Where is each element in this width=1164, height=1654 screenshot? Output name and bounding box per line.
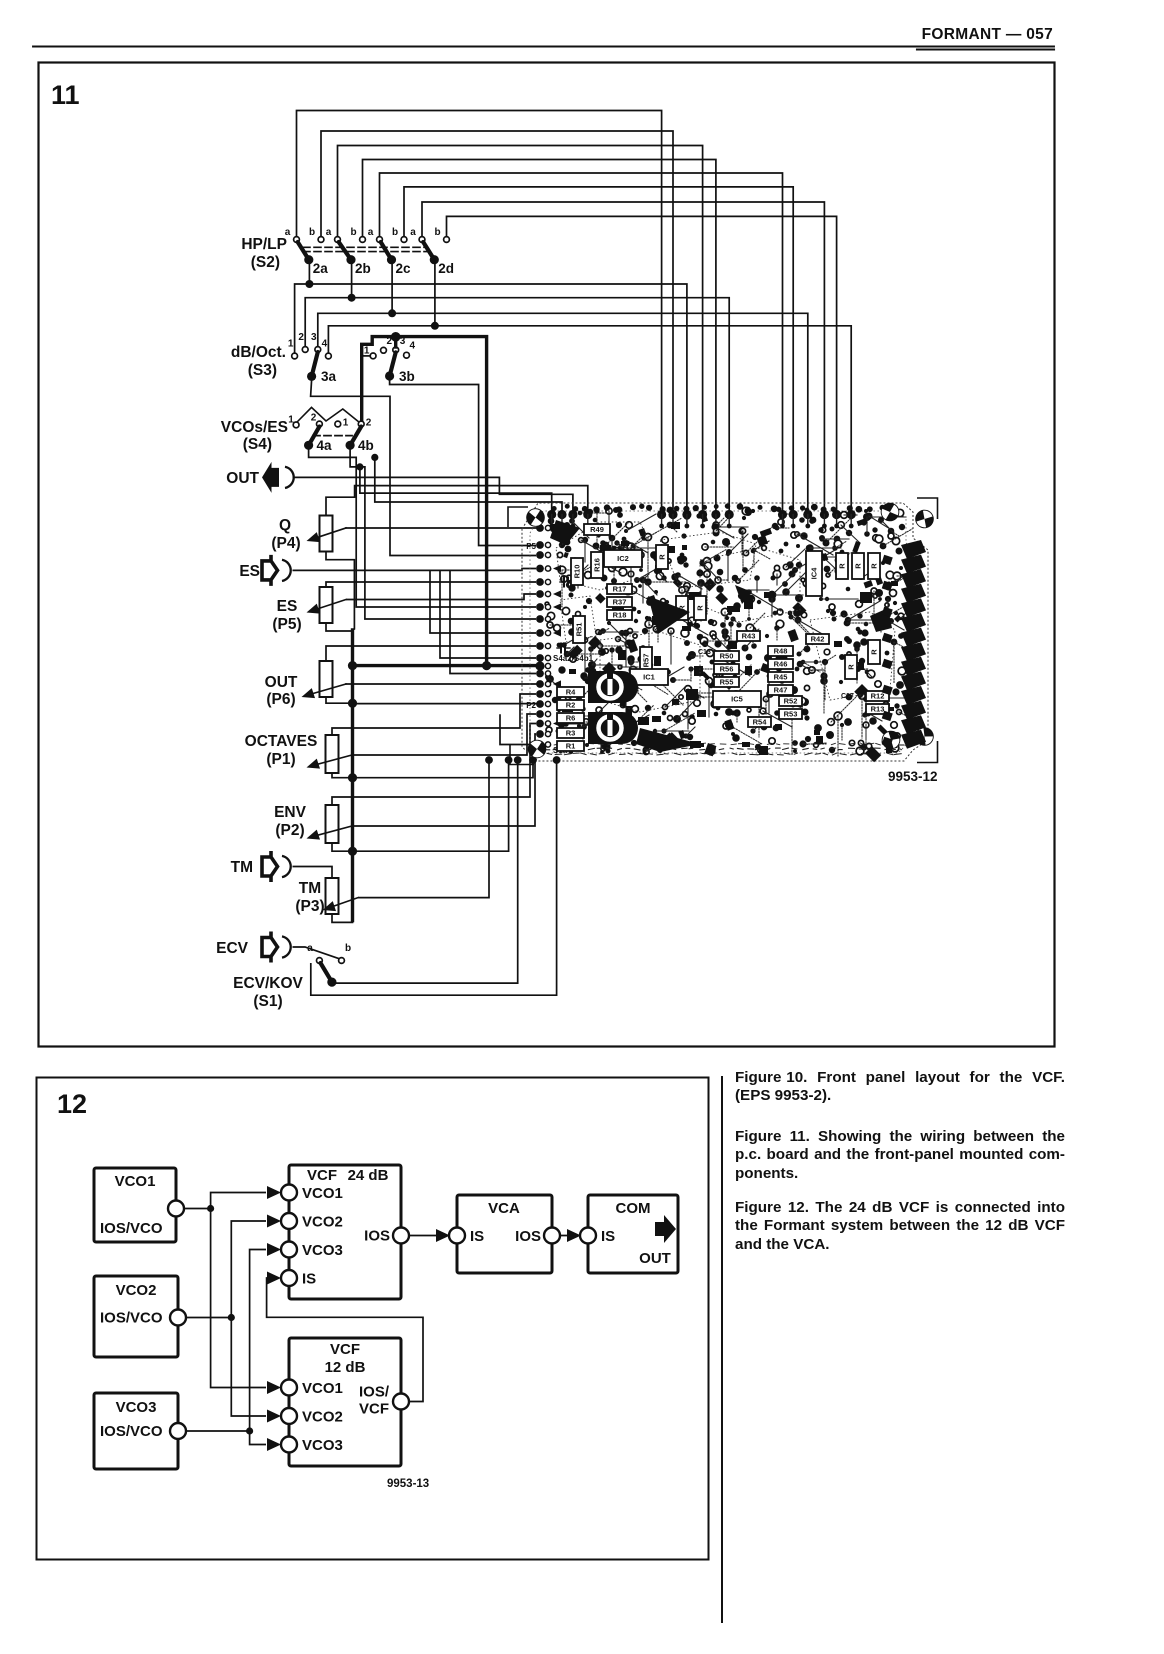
svg-text:R16: R16 — [593, 558, 602, 572]
P4 top wire to board — [326, 486, 588, 516]
svg-text:VCO3: VCO3 — [302, 1242, 343, 1259]
wire VCO2 to filters — [186, 1215, 281, 1423]
P1 bottom wire joins bus, continues to board bottom — [332, 762, 533, 778]
switch S3 dB/Oct (2-pole, 4 position) — [231, 332, 337, 384]
svg-text:R: R — [870, 563, 879, 569]
stub wires to board pads — [430, 570, 536, 744]
svg-text:R45: R45 — [774, 673, 788, 682]
trimmer potentiometers on board — [588, 671, 638, 744]
board bottom edge solder pads — [485, 756, 560, 764]
wire VCO3 to filters — [186, 1243, 281, 1451]
svg-text:12: 12 — [57, 1089, 87, 1119]
svg-text:12 dB: 12 dB — [325, 1359, 366, 1376]
thick feed wire to S3b terminal 3 and down to common bus — [362, 332, 487, 666]
svg-text:VCO3: VCO3 — [116, 1399, 157, 1416]
svg-text:S4a2/S4b1: S4a2/S4b1 — [553, 654, 594, 663]
svg-text:IOS/VCO: IOS/VCO — [100, 1220, 163, 1237]
svg-text:2b: 2b — [355, 261, 371, 276]
block VCA — [449, 1195, 560, 1273]
wire TM jack to P3 top — [293, 867, 333, 879]
P2 bottom wire joins bus, continues to board bottom — [332, 762, 509, 851]
svg-text:2: 2 — [366, 418, 372, 429]
svg-text:R51: R51 — [575, 623, 584, 637]
board left edge solder pads — [526, 524, 593, 755]
svg-text:4b: 4b — [358, 438, 374, 453]
svg-text:VCO2: VCO2 — [116, 1282, 157, 1299]
svg-text:IS: IS — [302, 1271, 316, 1288]
figure 12 frame — [37, 1078, 709, 1560]
P5 bottom wire joins bus — [326, 623, 353, 631]
block VCO2 — [94, 1276, 186, 1357]
P1 wiper wire with arrow — [305, 714, 536, 772]
svg-text:IS: IS — [601, 1228, 615, 1245]
block COM — [580, 1195, 678, 1273]
P5 wiper wire with arrow — [305, 594, 536, 617]
block VCO1 — [94, 1168, 184, 1242]
svg-text:R12: R12 — [871, 692, 885, 701]
svg-text:VCF: VCF — [359, 1401, 389, 1418]
svg-text:R47: R47 — [774, 686, 788, 695]
svg-text:R18: R18 — [613, 611, 627, 620]
svg-text:ECV: ECV — [216, 940, 249, 957]
svg-text:b: b — [392, 227, 398, 238]
page header FORMANT-057 — [33, 26, 1054, 50]
pole 3a output wire — [311, 380, 536, 556]
svg-text:VCO2: VCO2 — [302, 1214, 343, 1231]
svg-text:R: R — [870, 649, 879, 655]
svg-text:b: b — [434, 227, 440, 238]
svg-text:IC1: IC1 — [643, 673, 655, 682]
svg-text:R50: R50 — [720, 652, 734, 661]
svg-text:R2: R2 — [566, 701, 576, 710]
svg-text:R57: R57 — [642, 654, 651, 668]
svg-text:a: a — [326, 227, 332, 238]
jack TM (input socket) — [231, 851, 291, 882]
svg-text:IC5: IC5 — [731, 695, 743, 704]
wire from ES jack to board — [293, 569, 537, 571]
svg-text:a: a — [285, 227, 291, 238]
board mounting screws — [524, 501, 938, 761]
P6 wiper wire with arrow — [300, 684, 536, 702]
block VCF 24 dB — [281, 1165, 409, 1299]
svg-text:R48: R48 — [774, 647, 788, 656]
svg-text:(S2): (S2) — [251, 254, 280, 271]
svg-text:9953-12: 9953-12 — [888, 769, 938, 784]
svg-text:R55: R55 — [720, 678, 734, 687]
wires from S2 poles 2a-2d to p.c. board and to S3 terminals — [295, 284, 852, 512]
svg-text:4: 4 — [410, 340, 416, 351]
jack OUT (output socket) — [226, 462, 293, 493]
pole 3b output wire — [390, 379, 536, 546]
svg-text:4: 4 — [322, 339, 328, 350]
svg-text:OUT: OUT — [226, 470, 259, 487]
P2 wiper wire with arrow — [305, 734, 536, 843]
svg-text:(S1): (S1) — [253, 993, 282, 1010]
svg-text:b: b — [345, 943, 351, 954]
svg-text:3: 3 — [311, 332, 317, 343]
wire ECV jack to S1 terminal b — [293, 947, 339, 959]
svg-text:FORMANT — 057: FORMANT — 057 — [922, 26, 1053, 43]
svg-text:VCF: VCF — [330, 1341, 360, 1358]
potentiometer P2 (ENV) — [274, 804, 338, 843]
svg-text:R49: R49 — [590, 525, 604, 534]
svg-text:3a: 3a — [321, 369, 337, 384]
caption figure 11 — [735, 1128, 1065, 1183]
figure 11 frame — [39, 63, 1055, 1047]
svg-text:(P4): (P4) — [271, 535, 300, 552]
svg-text:TM: TM — [231, 859, 253, 876]
svg-text:a: a — [410, 227, 416, 238]
svg-text:VCF: VCF — [307, 1167, 337, 1184]
potentiometer P6 (OUT) — [265, 661, 333, 708]
svg-text:(P5): (P5) — [272, 616, 301, 633]
svg-text:VCO2: VCO2 — [302, 1409, 343, 1426]
board dark trace areas — [550, 520, 892, 752]
S1 terminal a wire to board — [311, 762, 557, 995]
branch wire to p.c. board pad row (top left) 2 — [375, 457, 562, 513]
P4 wiper wire with arrow — [305, 528, 536, 546]
potentiometer P3 (TM) — [295, 878, 338, 915]
board corner brackets — [508, 498, 938, 765]
svg-text:1: 1 — [364, 345, 370, 356]
svg-text:Q: Q — [279, 517, 291, 534]
pole 4a output wire — [309, 449, 536, 607]
board right edge contact fins — [882, 540, 926, 749]
svg-text:(P6): (P6) — [266, 691, 295, 708]
svg-text:R3: R3 — [566, 729, 576, 738]
svg-text:b: b — [309, 227, 315, 238]
svg-text:ES: ES — [239, 563, 260, 580]
svg-text:1: 1 — [343, 418, 349, 429]
P6 top wire — [326, 646, 536, 661]
svg-text:R43: R43 — [742, 632, 756, 641]
board components (resistors, ICs) — [557, 524, 889, 751]
svg-text:IOS: IOS — [515, 1228, 541, 1245]
caption figure 12 — [735, 1199, 1065, 1254]
svg-text:IOS/: IOS/ — [359, 1384, 390, 1401]
svg-text:R56: R56 — [720, 665, 734, 674]
wire VCF12 IOS/VCF output to VCF24 IS input — [267, 1272, 423, 1402]
svg-text:24 dB: 24 dB — [348, 1167, 389, 1184]
svg-text:(P2): (P2) — [275, 822, 304, 839]
svg-text:2a: 2a — [313, 261, 329, 276]
svg-text:2d: 2d — [438, 261, 454, 276]
svg-text:R13: R13 — [871, 705, 885, 714]
svg-text:R6: R6 — [566, 714, 576, 723]
svg-text:R42: R42 — [811, 635, 825, 644]
svg-text:(S3): (S3) — [248, 362, 277, 379]
svg-text:R4: R4 — [566, 688, 576, 697]
svg-text:9953-13: 9953-13 — [387, 1478, 429, 1490]
wire VCF24 IOS to VCA IS — [409, 1229, 450, 1242]
svg-text:2: 2 — [311, 413, 317, 424]
svg-text:VCO1: VCO1 — [115, 1173, 156, 1190]
svg-text:ECV/KOV: ECV/KOV — [233, 975, 303, 992]
svg-text:a: a — [368, 227, 374, 238]
svg-text:OCTAVES: OCTAVES — [245, 733, 318, 750]
caption figure 10 — [735, 1069, 1065, 1106]
potentiometer P4 (Q) — [271, 516, 332, 553]
wire VCO1 to filters — [184, 1186, 281, 1394]
P5 top wire — [326, 582, 536, 587]
P3 bottom wire joins bus end — [332, 914, 353, 922]
svg-text:C17: C17 — [841, 693, 854, 700]
svg-text:(S4): (S4) — [243, 436, 272, 453]
svg-text:R17: R17 — [613, 585, 627, 594]
svg-text:b: b — [350, 227, 356, 238]
svg-text:P7: P7 — [603, 743, 612, 750]
svg-text:OUT: OUT — [265, 674, 298, 691]
svg-text:VCA: VCA — [488, 1200, 520, 1217]
P4 bottom wire to bus — [326, 552, 354, 631]
svg-text:IC4: IC4 — [810, 567, 819, 580]
svg-text:IC2: IC2 — [617, 554, 629, 563]
svg-text:IOS/VCO: IOS/VCO — [100, 1423, 163, 1440]
S1 pole output wire to board — [334, 762, 518, 983]
svg-text:OUT: OUT — [639, 1250, 671, 1267]
svg-text:HP/LP: HP/LP — [241, 236, 287, 253]
svg-text:ENV: ENV — [274, 804, 307, 821]
switch S1 ECV/KOV — [233, 943, 351, 1010]
svg-text:IS: IS — [470, 1228, 484, 1245]
svg-text:R: R — [838, 563, 847, 569]
svg-text:VCO1: VCO1 — [302, 1185, 343, 1202]
svg-text:1: 1 — [288, 339, 294, 350]
svg-text:(P3): (P3) — [295, 898, 324, 915]
jack ECV (input socket) — [216, 932, 291, 963]
wire bus to board pad P2 row — [354, 703, 536, 705]
svg-text:(P1): (P1) — [266, 751, 295, 768]
svg-text:dB/Oct.: dB/Oct. — [231, 344, 286, 361]
wires from switch S2 terminals to p.c. board (nested runs) — [297, 111, 837, 512]
switch S3 pole 3b — [364, 336, 416, 384]
block VCF 12 dB — [281, 1338, 409, 1466]
P2 top wire — [332, 724, 536, 806]
wire from OUT jack to p.c. board — [293, 477, 573, 513]
P6 bottom wire joins bus — [326, 697, 350, 703]
thick common bus wire — [348, 630, 540, 921]
wire VCA IOS to COM IS — [560, 1229, 581, 1242]
svg-text:R53: R53 — [784, 710, 798, 719]
svg-text:R52: R52 — [784, 697, 798, 706]
svg-text:ES: ES — [277, 598, 298, 615]
svg-text:VCO3: VCO3 — [302, 1437, 343, 1454]
svg-text:R37: R37 — [613, 598, 627, 607]
block VCO3 — [94, 1393, 186, 1469]
svg-text:11: 11 — [51, 80, 80, 110]
switch S2 HP/LP (4-pole) — [241, 227, 454, 330]
svg-text:3b: 3b — [399, 369, 415, 384]
svg-text:COM: COM — [616, 1200, 651, 1217]
svg-text:4a: 4a — [317, 438, 333, 453]
pole 4b output wire — [350, 449, 536, 619]
column divider rule — [721, 1077, 723, 1622]
svg-text:R1: R1 — [566, 742, 576, 751]
svg-text:R: R — [658, 554, 667, 560]
P3 wiper wire with arrow — [321, 762, 489, 915]
svg-text:2: 2 — [298, 332, 304, 343]
svg-text:TM: TM — [299, 880, 321, 897]
svg-text:R54: R54 — [753, 718, 768, 727]
svg-text:R10: R10 — [573, 565, 582, 579]
svg-text:2c: 2c — [396, 261, 412, 276]
svg-text:R: R — [696, 605, 705, 611]
svg-text:IOS/VCO: IOS/VCO — [100, 1310, 163, 1327]
jack ES (input socket) — [239, 555, 290, 586]
board top edge solder pads — [547, 503, 891, 528]
P1 top wire — [332, 694, 536, 735]
svg-text:R46: R46 — [774, 660, 788, 669]
svg-text:VCOs/ES: VCOs/ES — [221, 419, 288, 436]
svg-text:C13: C13 — [698, 649, 711, 656]
svg-text:P5: P5 — [526, 542, 536, 551]
svg-text:IOS: IOS — [364, 1228, 390, 1245]
svg-text:R: R — [854, 563, 863, 569]
potentiometer P5 (ES) — [272, 587, 332, 633]
svg-text:VCO1: VCO1 — [302, 1380, 343, 1397]
p.c. board component side (EPS 9953) — [522, 503, 928, 761]
branch wire to p.c. board pad row (top left) — [360, 467, 552, 513]
potentiometer P1 (OCTAVES) — [245, 733, 339, 773]
board pads and traces texture — [545, 507, 920, 762]
switch S4 VCOs/ES (2-pole) — [221, 407, 374, 453]
svg-text:P2: P2 — [526, 701, 536, 710]
svg-text:R: R — [847, 664, 856, 670]
